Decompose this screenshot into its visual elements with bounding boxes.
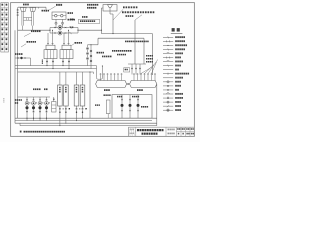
wire: drop x144 to branch header: [143, 38, 145, 64]
legend row 19: [163, 109, 173, 111]
label: right of unit 2: [68, 19, 76, 21]
wire: chilled water header 3: [18, 71, 94, 73]
soft water tank: [106, 100, 110, 114]
outer drawing frame: [11, 3, 195, 137]
leader: [21, 44, 26, 47]
title text line 1: [137, 129, 164, 131]
leader: [24, 33, 31, 36]
label: distributor: [104, 89, 110, 91]
feeds from pump ladder to chillers: [47, 33, 49, 44]
wire: tower supply header: [18, 6, 46, 8]
legend row 18: [163, 105, 173, 107]
tall riser box 3: [74, 85, 79, 106]
label: fan-coil & AHU (two-pipe): [125, 41, 149, 43]
left margin mark: [3, 98, 4, 103]
label: city water pipe: [15, 53, 23, 55]
comb over distributor: [100, 75, 102, 81]
wire: bottom header 2: [15, 120, 152, 122]
label: cooling tower w/ leader: [56, 4, 62, 6]
legend row 2: [163, 40, 173, 42]
wire: left main riser B: [17, 30, 19, 118]
bypass assembly: [52, 102, 56, 113]
tower downpipes: [21, 12, 23, 26]
basin outlet pipes: [22, 26, 24, 31]
wire between cylinders: [127, 83, 130, 85]
title block: [128, 126, 194, 128]
legend row 6: [163, 57, 173, 59]
label: upper mid: [31, 30, 41, 32]
label: (two-pipe) 2: [117, 54, 126, 56]
label: connect city water: [123, 6, 137, 8]
small label left: [95, 104, 100, 105]
legend row 1: [163, 36, 173, 38]
wire: drop to treatment unit: [45, 7, 47, 12]
wire: riser x101.5: [101, 8, 103, 34]
wire: step riser x98: [97, 38, 99, 45]
wire: chilled water header 2: [15, 68, 97, 70]
wire: tank drop elbow: [110, 13, 113, 15]
legend row 7: [163, 61, 173, 63]
label cluster right r1: [146, 55, 153, 57]
water treatment unit: [52, 12, 66, 19]
wire: right riser x152.5: [152, 34, 154, 75]
label in box 2: [132, 96, 139, 98]
wire: ladder outlet to riser: [78, 29, 102, 31]
valve between cylinders: [127, 83, 129, 85]
small label left of box: [70, 19, 74, 21]
unit drop pipes with gauges: [55, 19, 57, 27]
condenser pump 1 (top line): [54, 27, 55, 29]
make-up water branch w/ valve meter valve: [15, 57, 31, 59]
riser valve stacks: [87, 45, 89, 66]
label: soft water tank: [104, 94, 111, 96]
label: right of unit 1: [68, 12, 74, 14]
legend row 17: [163, 101, 173, 103]
label in box 1: [117, 96, 122, 98]
label: comprehensive water treater: [42, 10, 50, 12]
legend row 9: [163, 69, 173, 71]
sign column 2: [168, 133, 175, 135]
wire: riser x113: [112, 14, 114, 34]
legend row 15: [163, 93, 173, 95]
tiny label between boxes: [69, 108, 70, 109]
wire: riser x135: [134, 20, 136, 64]
boxed label near branch: [124, 68, 130, 72]
leader: [72, 44, 75, 46]
tall riser box 2: [64, 85, 69, 106]
wire: chilled water header 1: [15, 65, 97, 67]
legend row 14: [163, 89, 173, 91]
left revision table: [1, 3, 9, 52]
legend row 13: [163, 85, 173, 87]
legend row 10: [163, 73, 173, 75]
legend row 8: [163, 65, 173, 67]
wire: pump bank header: [18, 96, 50, 98]
legend row 12: [163, 81, 173, 83]
label: above boxes 1: [33, 88, 41, 90]
note prefix 注: [20, 131, 22, 133]
label left of tank row1: [87, 4, 98, 6]
label cluster right r3: [146, 61, 153, 63]
label: above boxes 2: [44, 88, 48, 90]
legend row 3: [163, 44, 173, 46]
label: to roof fire tank (see plumbing): [122, 11, 154, 13]
label left of tank row2: [87, 7, 96, 9]
label above boxed note: [82, 16, 88, 18]
label cluster right r2: [146, 58, 153, 60]
leader to tank label 2: [135, 15, 142, 20]
legend title underline: [171, 33, 183, 35]
tall riser box 1: [58, 85, 63, 106]
wire: left main riser A: [14, 30, 16, 123]
label: tower make-up: [27, 41, 37, 43]
wire: bottom header 3: [15, 122, 157, 124]
label: cooling tower (left): [23, 4, 29, 6]
label: AC terminal: [97, 52, 105, 54]
cooling tower CT-1: [20, 8, 26, 12]
small label below: [70, 27, 73, 29]
legend row 4: [163, 48, 173, 50]
wire: from towers to pump ladder: [18, 29, 50, 31]
wire: collector right drop: [156, 84, 158, 126]
collector cylinder: [130, 81, 157, 88]
wire: bottom header 4: [20, 125, 157, 127]
leader to tank label 1: [113, 9, 123, 20]
label: pumps line1: [15, 99, 22, 101]
pump ladder frame: [50, 27, 78, 29]
expansion water tank: [103, 5, 117, 11]
label: collector: [137, 89, 143, 91]
make-up pump box: [112, 95, 152, 119]
cooling tower CT-2: [30, 8, 36, 12]
label: chiller group: [75, 42, 83, 44]
wire: upper run y33.6: [102, 33, 153, 35]
wire: step run y38.2: [98, 37, 144, 39]
label: make-up pump set: [141, 106, 148, 108]
chilled water pumps x4: [26, 97, 28, 121]
legend row 16: [163, 97, 173, 99]
sign column 1: [168, 129, 175, 131]
label: second row: [126, 15, 134, 17]
boxed label: see plumbing drawings: [79, 19, 100, 23]
title text line 2: [142, 133, 158, 135]
hatched cell: [129, 128, 130, 136]
label: FCU and AHU riser: [112, 50, 132, 52]
wire: bottom header 1: [15, 117, 157, 119]
chiller unit 2: [60, 50, 73, 59]
H link between downpipes: [24, 17, 32, 19]
wire: step run y44.8: [88, 44, 99, 46]
chiller outlet pipes with valves: [46, 59, 48, 66]
balance U loop: [97, 66, 103, 80]
tick on supply line: [38, 7, 40, 8]
condenser pump 2 (bottom line): [54, 32, 55, 34]
tiny pipe label: [42, 60, 43, 64]
wire: drop x90 to bottom header: [89, 72, 91, 118]
legend title: [172, 28, 180, 31]
legend row 5: [163, 53, 173, 55]
label: (two-pipe): [102, 56, 112, 58]
tiny label right of boxes: [86, 108, 87, 109]
tower inlet pipe with valve stack: [17, 7, 19, 30]
leaders to right label cluster: [145, 65, 155, 74]
label: pumps line2: [15, 102, 18, 104]
comb over collector: [133, 75, 135, 81]
legend row 11: [163, 77, 173, 79]
branch header with valved stubs: [128, 63, 146, 65]
distributor cylinder: [96, 81, 127, 88]
chiller unit 1: [44, 50, 57, 59]
note text line: [24, 131, 65, 133]
tall riser box 4: [80, 85, 85, 106]
